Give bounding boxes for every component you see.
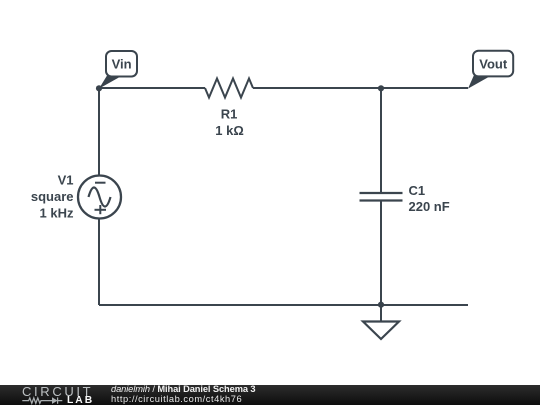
wire left vertical: Vin node to V1 top <box>98 88 100 176</box>
logo CIRCUIT <box>22 384 93 399</box>
node Vin junction dot <box>96 85 102 91</box>
svg-text:V1: V1 <box>58 173 74 188</box>
svg-text:1 kΩ: 1 kΩ <box>215 123 244 138</box>
footer url line <box>111 394 242 404</box>
ground <box>363 305 399 339</box>
footer credit line <box>111 384 256 394</box>
label V1 designator <box>58 173 74 188</box>
svg-text:R1: R1 <box>221 107 238 122</box>
wire top right: resistor to Vout <box>253 87 468 89</box>
node Vin flag <box>99 51 137 89</box>
svg-text:220 nF: 220 nF <box>409 199 450 214</box>
resistor R1 <box>205 79 253 98</box>
label V1 value square 1 kHz <box>31 189 74 220</box>
svg-text:Vin: Vin <box>112 57 132 72</box>
capacitor C1 <box>360 193 403 201</box>
svg-text:1 kHz: 1 kHz <box>40 205 74 220</box>
logo LAB <box>67 395 94 406</box>
wire top left: node Vin to resistor <box>99 87 205 89</box>
svg-text:C1: C1 <box>409 183 426 198</box>
label C1 designator <box>409 183 426 198</box>
svg-text:Vout: Vout <box>479 56 508 71</box>
label R1 value 1 kOhm <box>215 123 244 138</box>
node top junction dot <box>378 85 384 91</box>
wire bottom rail <box>99 304 468 306</box>
svg-text:square: square <box>31 189 74 204</box>
footer bar <box>0 385 540 406</box>
wire capacitor branch bottom <box>380 201 382 306</box>
logo wire motif <box>18 396 68 406</box>
node bottom junction dot <box>378 302 384 308</box>
wire left vertical: V1 bottom to bottom rail <box>98 219 100 306</box>
label R1 designator <box>221 107 238 122</box>
voltage source V1 <box>78 176 121 219</box>
wire capacitor branch top <box>380 88 382 193</box>
label C1 value 220 nF <box>409 199 450 214</box>
node Vout flag <box>468 51 513 89</box>
